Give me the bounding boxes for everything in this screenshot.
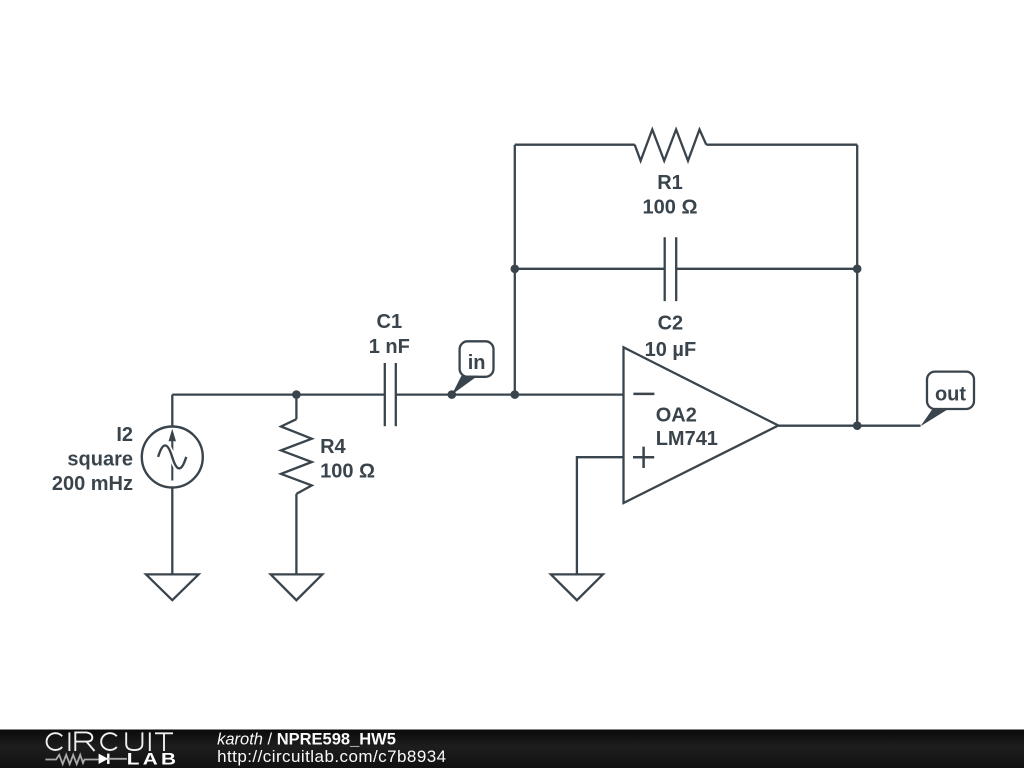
svg-text:100 Ω: 100 Ω: [320, 461, 375, 483]
svg-text:R1: R1: [657, 172, 683, 194]
svg-text:OA2: OA2: [656, 405, 697, 427]
svg-text:R4: R4: [320, 436, 346, 458]
svg-text:square: square: [67, 448, 133, 470]
svg-text:out: out: [935, 384, 966, 406]
svg-text:10 µF: 10 µF: [645, 339, 697, 361]
svg-text:C2: C2: [658, 312, 684, 334]
svg-text:in: in: [468, 352, 486, 374]
svg-text:C1: C1: [377, 311, 403, 333]
svg-text:100 Ω: 100 Ω: [643, 196, 698, 218]
svg-text:http://circuitlab.com/c7b8934: http://circuitlab.com/c7b8934: [217, 747, 446, 766]
svg-text:karoth / NPRE598_HW5: karoth / NPRE598_HW5: [217, 731, 396, 749]
svg-text:LM741: LM741: [656, 428, 718, 450]
svg-text:200 mHz: 200 mHz: [52, 473, 133, 495]
svg-text:1 nF: 1 nF: [369, 336, 410, 358]
svg-text:LAB: LAB: [127, 749, 180, 767]
svg-text:I2: I2: [116, 424, 133, 446]
